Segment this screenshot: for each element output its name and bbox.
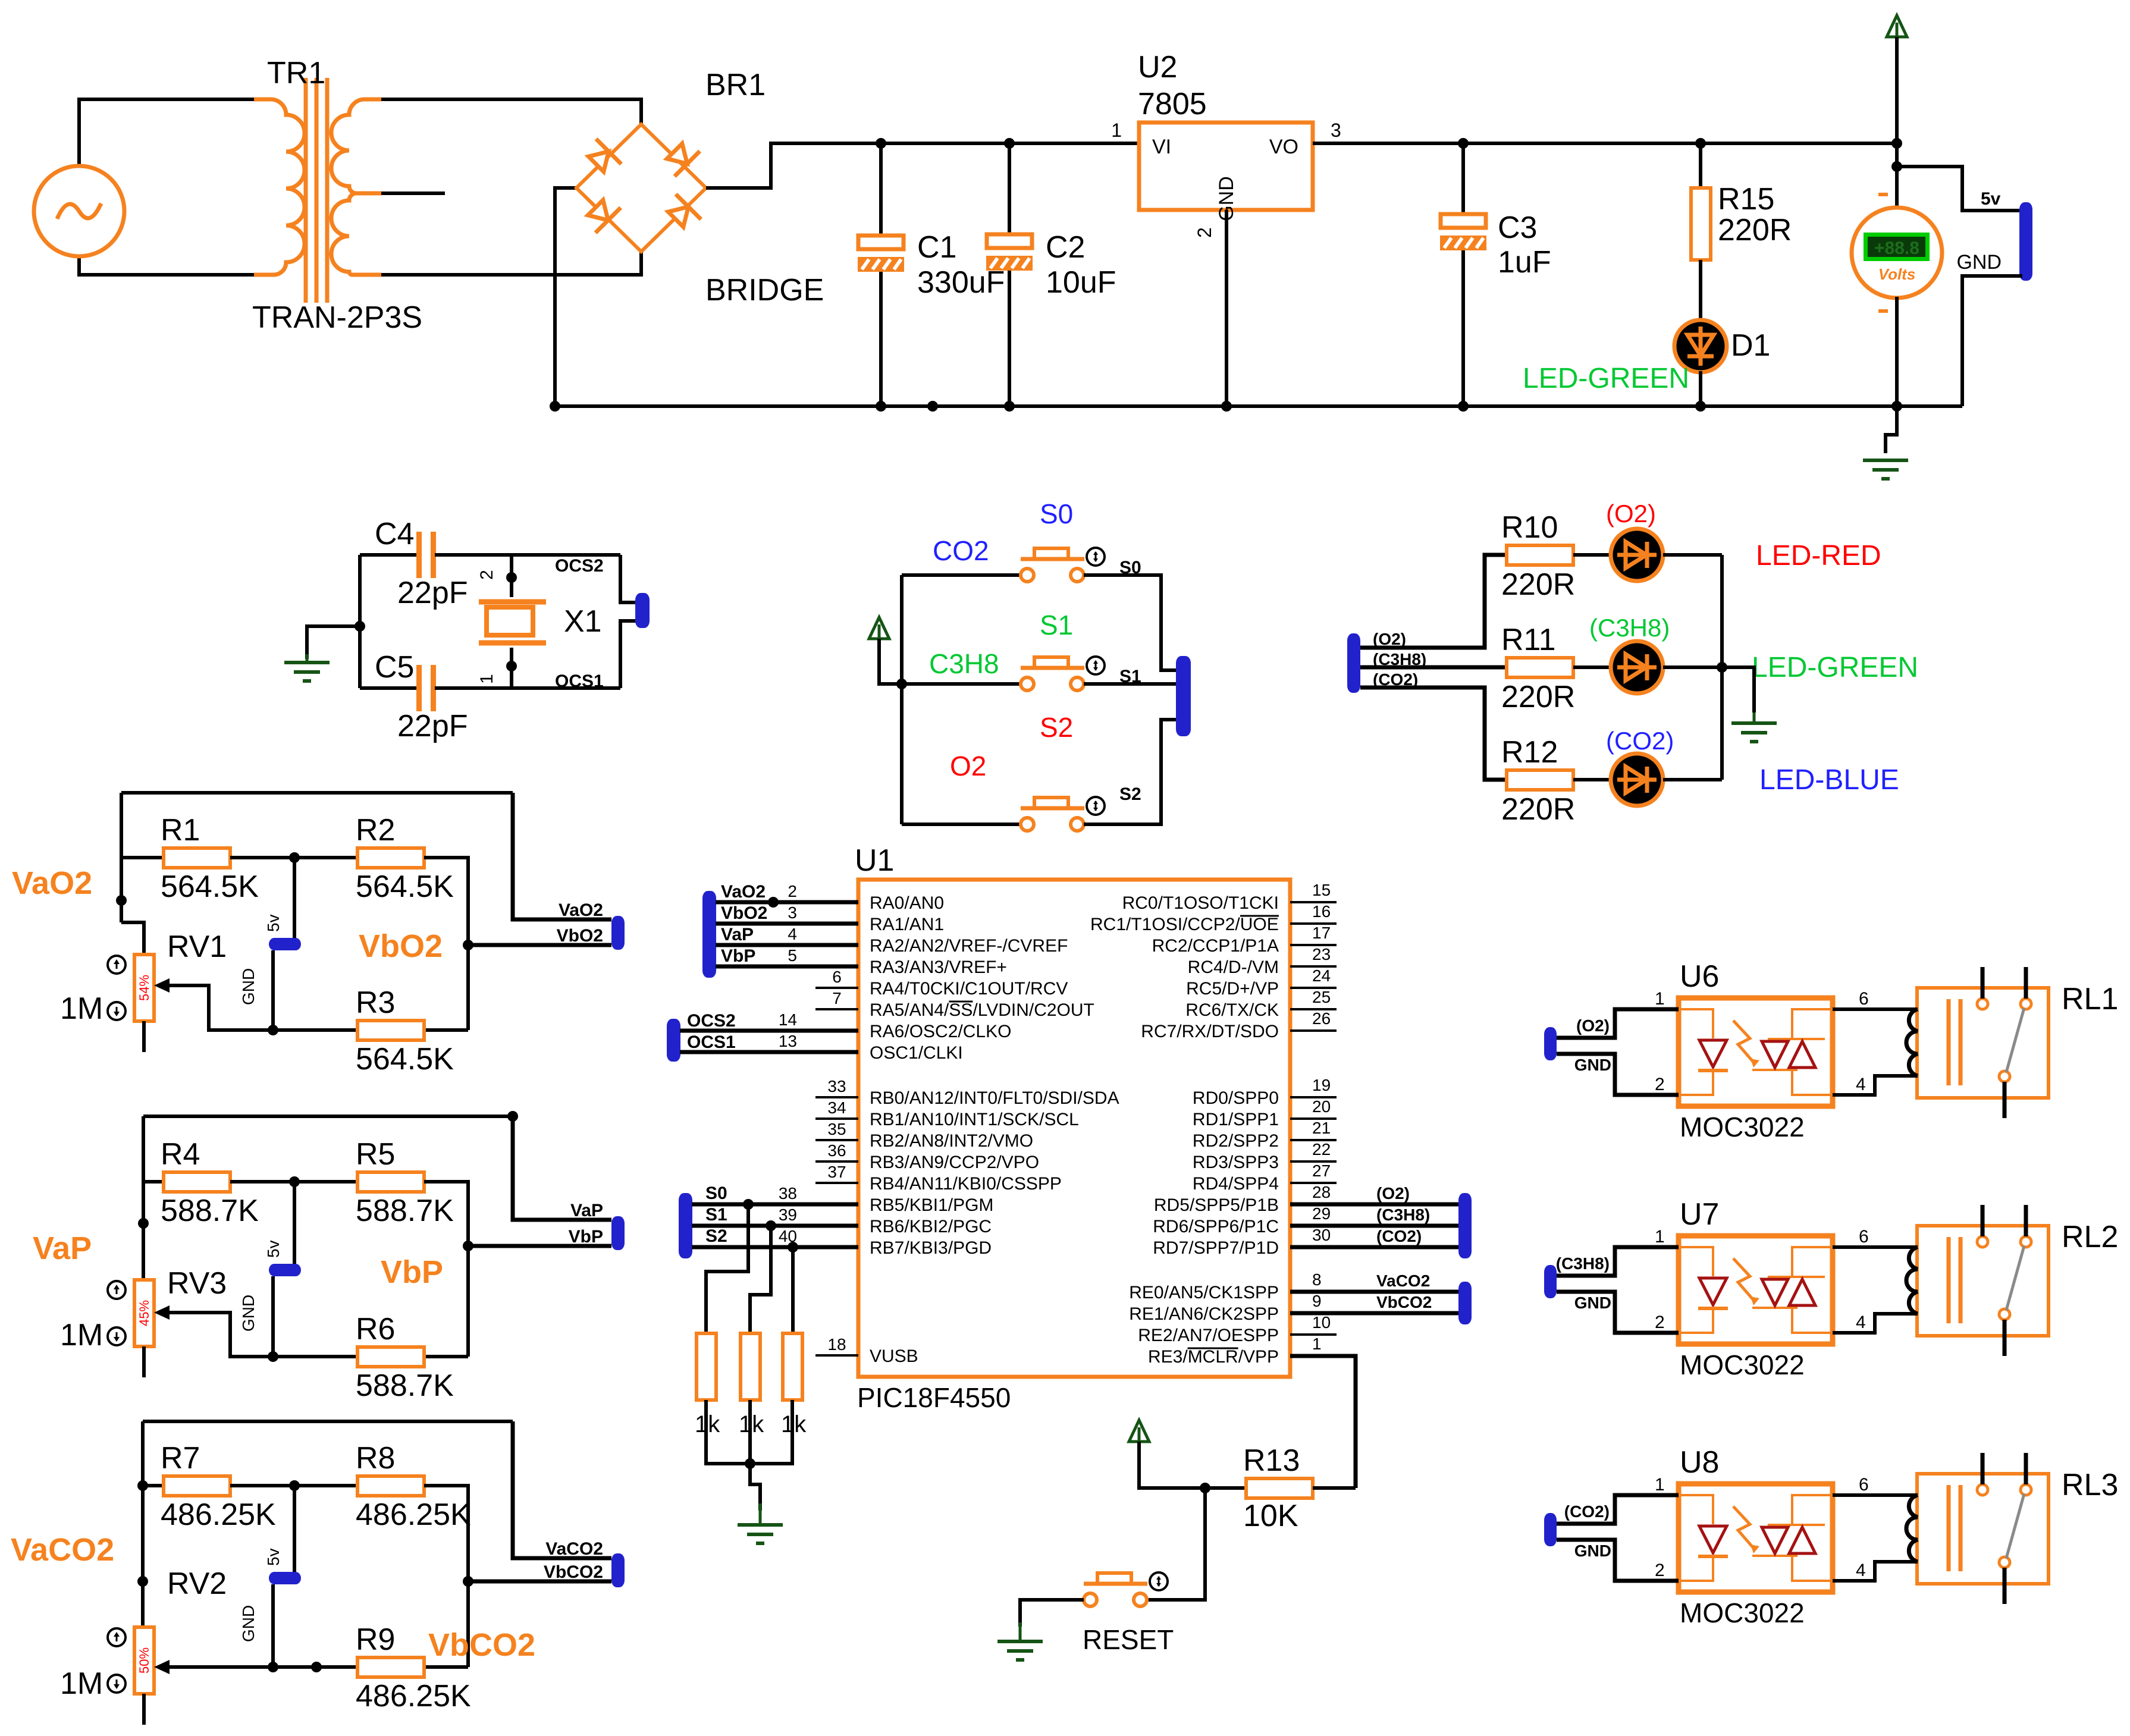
wire S0 right — [1084, 575, 1176, 670]
svg-text:R11: R11 — [1501, 623, 1556, 657]
wire voltmeter bottom to ground rail — [1895, 297, 1899, 406]
wire O2 divider Va stub to terminal — [513, 793, 611, 919]
resistor R11 — [1507, 658, 1573, 677]
svg-text:RL2: RL2 — [2062, 1220, 2118, 1254]
svg-text:RB2/AN8/INT2/VMO: RB2/AN8/INT2/VMO — [870, 1131, 1033, 1151]
transformer TR1 — [254, 99, 305, 275]
svg-text:2: 2 — [477, 570, 497, 580]
svg-text:14: 14 — [779, 1010, 797, 1029]
ground symbol RESET — [1019, 1622, 1022, 1641]
voltmeter Volts — [1852, 208, 1942, 298]
U8 internal triac wires — [1752, 1495, 1833, 1581]
wire transformer center tap stub — [381, 192, 445, 195]
svg-text:+88.8: +88.8 — [1874, 238, 1919, 258]
relay RL3 coil — [1906, 1495, 1918, 1562]
svg-text:9: 9 — [1312, 1292, 1322, 1310]
junction S1 drop — [766, 1220, 776, 1231]
optocoupler U6 box — [1679, 998, 1833, 1106]
svg-text:MOC3022: MOC3022 — [1680, 1597, 1805, 1628]
svg-text:1M: 1M — [60, 1666, 103, 1701]
svg-text:(C3H8): (C3H8) — [1589, 614, 1670, 642]
svg-text:OCS2: OCS2 — [555, 556, 604, 576]
ground symbol crystal — [306, 654, 309, 663]
wire S2 drop to 1k — [791, 1247, 795, 1335]
wire R13 right — [1313, 1486, 1356, 1490]
junction GND P divider — [268, 1351, 278, 1362]
relay RL3 core — [1947, 1485, 1951, 1571]
terminal 5v P divider — [269, 1264, 301, 1276]
terminal LED nets — [1347, 633, 1360, 693]
svg-text:54%: 54% — [137, 975, 152, 1001]
svg-text:16: 16 — [1312, 902, 1331, 921]
resistor R7 — [164, 1476, 230, 1496]
wire C3 bottom — [1461, 250, 1465, 406]
svg-text:6: 6 — [1859, 1475, 1869, 1495]
svg-text:RA6/OSC2/CLKO: RA6/OSC2/CLKO — [870, 1022, 1011, 1041]
wire ground tap — [307, 626, 360, 659]
svg-text:RC5/D+/VP: RC5/D+/VP — [1186, 979, 1279, 999]
svg-text:22pF: 22pF — [397, 576, 468, 610]
wire power arrow to rail — [1895, 37, 1899, 143]
svg-text:10uF: 10uF — [1046, 265, 1116, 300]
wire U2 GND pin to ground rail — [1225, 210, 1228, 406]
svg-text:S2: S2 — [1040, 712, 1073, 743]
junction LED rail — [1717, 662, 1727, 673]
wire crystal loop right bottom — [620, 621, 638, 688]
resistor R1 — [164, 848, 230, 868]
wire S2 left — [902, 823, 1021, 826]
wire bottom row P divider — [230, 1355, 468, 1358]
svg-text:(C3H8): (C3H8) — [1556, 1254, 1610, 1273]
svg-text:(CO2): (CO2) — [1564, 1502, 1610, 1521]
wire (O2) from U1 — [1290, 1203, 1458, 1207]
wire S0 left — [902, 573, 1021, 577]
wire LED rail to ground — [1722, 667, 1754, 712]
wire left rail to R4 — [143, 1180, 164, 1184]
U7 internal triac — [1762, 1279, 1788, 1305]
svg-text:GND: GND — [239, 1295, 258, 1332]
LED green (C3H8) — [1611, 641, 1663, 693]
svg-text:50%: 50% — [137, 1647, 152, 1674]
U7 internal led wire — [1679, 1247, 1713, 1333]
svg-text:29: 29 — [1312, 1204, 1331, 1223]
svg-text:VbP: VbP — [569, 1227, 603, 1247]
potentiometer RV1 — [134, 955, 154, 1021]
wire GND drop P divider — [271, 1276, 275, 1357]
svg-text:RA5/AN4/SS/LVDIN/C2OUT: RA5/AN4/SS/LVDIN/C2OUT — [870, 1000, 1094, 1020]
svg-text:RV1: RV1 — [167, 930, 227, 964]
U6 internal triac — [1762, 1041, 1788, 1068]
relay RL1 moving contact — [1999, 1071, 2010, 1082]
svg-text:10: 10 — [1312, 1313, 1331, 1332]
junction GND CO2 divider — [268, 1662, 278, 1672]
wire pin 18 VUSB stub — [815, 1354, 858, 1357]
terminal VaCO2/VbCO2 — [611, 1553, 625, 1587]
svg-text:RD5/SPP5/P1B: RD5/SPP5/P1B — [1154, 1195, 1279, 1215]
svg-text:RE1/AN6/CK2SPP: RE1/AN6/CK2SPP — [1129, 1304, 1279, 1324]
wire VaO2 to U1 — [716, 900, 858, 905]
relay RL2 coil — [1906, 1247, 1918, 1314]
junction power node — [1891, 138, 1902, 149]
terminal 5v O2 divider — [269, 938, 301, 950]
wire R7 to mid junction — [230, 1484, 357, 1487]
pot down arrow — [108, 1002, 126, 1020]
wire CO2 divider top — [143, 1420, 513, 1423]
svg-text:38: 38 — [779, 1184, 797, 1203]
push button S1 — [1021, 677, 1034, 690]
svg-text:RB5/KBI1/PGM: RB5/KBI1/PGM — [870, 1195, 993, 1215]
wire Vb to terminal O2 divider — [468, 943, 611, 947]
wire crystal pin 2 — [510, 555, 513, 597]
svg-text:BRIDGE: BRIDGE — [705, 273, 824, 307]
svg-text:RD4/SPP4: RD4/SPP4 — [1193, 1174, 1279, 1194]
svg-text:564.5K: 564.5K — [356, 1042, 454, 1076]
capacitor C4 — [416, 532, 422, 578]
wire U7 pin4 to coil — [1833, 1314, 1918, 1333]
U8 internal triac — [1762, 1527, 1788, 1553]
svg-text:VbCO2: VbCO2 — [1376, 1293, 1432, 1311]
svg-text:(C3H8): (C3H8) — [1376, 1206, 1430, 1224]
ground symbol LEDs — [1753, 712, 1756, 723]
wire S2 to U1 — [692, 1245, 858, 1250]
junction R13 left — [1200, 1483, 1210, 1493]
wire AC source to transformer primary top — [79, 99, 254, 167]
svg-text:RD6/SPP6/P1C: RD6/SPP6/P1C — [1153, 1217, 1279, 1236]
wire (CO2) from U1 — [1290, 1245, 1458, 1250]
LED right rail — [1720, 555, 1724, 780]
wire C2 top — [1008, 143, 1011, 237]
svg-text:S2: S2 — [705, 1226, 727, 1246]
svg-text:VaCO2: VaCO2 — [545, 1539, 603, 1559]
svg-text:RA1/AN1: RA1/AN1 — [870, 915, 944, 934]
svg-text:2: 2 — [1655, 1313, 1665, 1332]
optocoupler U7 box — [1679, 1236, 1833, 1344]
svg-text:RE0/AN5/CK1SPP: RE0/AN5/CK1SPP — [1129, 1283, 1279, 1302]
svg-text:RA4/T0CKI/C1OUT/RCV: RA4/T0CKI/C1OUT/RCV — [870, 979, 1068, 999]
svg-text:6: 6 — [1859, 989, 1869, 1009]
terminal S0 S1 S2 U1 — [679, 1193, 692, 1258]
relay RL2 top pin A — [1981, 1205, 1985, 1236]
svg-text:R6: R6 — [356, 1312, 395, 1346]
svg-text:RB4/AN11/KBI0/CSSPP: RB4/AN11/KBI0/CSSPP — [870, 1174, 1062, 1194]
wire VbP to U1 — [716, 965, 858, 969]
resistor R13 — [1246, 1478, 1313, 1498]
resistor R9 — [357, 1657, 424, 1677]
svg-text:19: 19 — [1312, 1076, 1331, 1094]
wire R4 to mid junction — [230, 1180, 357, 1184]
svg-text:6: 6 — [1859, 1227, 1869, 1247]
terminal U8 input — [1544, 1513, 1557, 1546]
junction 5v O2 divider — [289, 852, 300, 863]
svg-text:22: 22 — [1312, 1140, 1331, 1159]
svg-text:VbP: VbP — [381, 1254, 443, 1290]
svg-text:RD1/SPP1: RD1/SPP1 — [1193, 1110, 1279, 1129]
svg-text:RE3/MCLR/VPP: RE3/MCLR/VPP — [1148, 1347, 1279, 1367]
bridge diode top-left — [584, 139, 622, 177]
svg-text:OCS1: OCS1 — [687, 1032, 736, 1052]
svg-text:2: 2 — [788, 882, 797, 900]
junction pin2 wire — [768, 897, 779, 908]
svg-text:RA3/AN3/VREF+: RA3/AN3/VREF+ — [870, 958, 1007, 977]
wire O2 divider top — [121, 791, 513, 795]
power arrow buttons — [869, 617, 889, 639]
svg-text:5v: 5v — [264, 1240, 283, 1258]
relay RL3 NO contact — [2021, 1484, 2031, 1495]
svg-text:1: 1 — [477, 674, 497, 684]
svg-text:26: 26 — [1312, 1009, 1331, 1028]
wire GND drop CO2 divider — [271, 1584, 275, 1667]
svg-text:R7: R7 — [161, 1441, 200, 1476]
junction at C1 — [876, 138, 886, 149]
svg-text:7805: 7805 — [1138, 87, 1207, 121]
svg-text:RL3: RL3 — [2062, 1468, 2118, 1502]
U6 internal LED — [1699, 1040, 1727, 1067]
svg-text:35: 35 — [827, 1120, 846, 1138]
wire CO2 divider Va stub to terminal — [513, 1421, 611, 1558]
svg-text:VbCO2: VbCO2 — [544, 1562, 603, 1582]
wire (C3H8) from U1 — [1290, 1224, 1458, 1228]
svg-text:8: 8 — [1312, 1270, 1322, 1289]
terminal S0 S1 S2 buttons — [1176, 656, 1191, 736]
optocoupler U8 box — [1679, 1484, 1833, 1592]
wire CO2 divider left rail — [141, 1421, 145, 1627]
svg-text:R2: R2 — [356, 813, 395, 847]
svg-text:RESET: RESET — [1083, 1624, 1174, 1655]
junction 5v P divider — [289, 1176, 300, 1187]
U8 internal lightning — [1733, 1506, 1753, 1548]
ground rail — [555, 404, 1962, 408]
wire O2 divider left rail — [120, 793, 123, 922]
wire 5v drop P divider — [293, 1182, 296, 1265]
wire D1 to ground rail — [1699, 371, 1702, 406]
wire crystal loop left — [358, 555, 362, 688]
svg-text:S1: S1 — [705, 1205, 727, 1225]
svg-text:X1: X1 — [564, 604, 602, 639]
svg-text:C4: C4 — [375, 517, 414, 551]
svg-text:C5: C5 — [375, 650, 414, 685]
U7 internal LED — [1699, 1278, 1727, 1305]
svg-text:220R: 220R — [1501, 792, 1575, 827]
wire U8 pin4 to coil — [1833, 1562, 1918, 1581]
ground symbol 1k — [759, 1503, 762, 1525]
junction U2 GND at rail — [1221, 401, 1232, 412]
AC source V1 — [34, 166, 124, 256]
wire C1 bottom — [879, 269, 883, 406]
junction at R15 — [1695, 138, 1706, 149]
svg-text:BR1: BR1 — [705, 68, 766, 102]
potentiometer RV3 — [134, 1280, 154, 1346]
wire S2 right — [1084, 720, 1176, 824]
wiper wire RV1 — [159, 985, 273, 1030]
capacitor C1 — [858, 236, 904, 249]
svg-text:CO2: CO2 — [933, 535, 989, 566]
svg-text:VaO2: VaO2 — [559, 900, 603, 920]
terminal U6 input — [1544, 1027, 1557, 1060]
relay RL1 box — [1917, 988, 2049, 1098]
relay RL1 common contact — [1977, 999, 1988, 1009]
svg-text:RD0/SPP0: RD0/SPP0 — [1193, 1088, 1279, 1108]
pot down arrow — [108, 1327, 126, 1345]
svg-text:RA0/AN0: RA0/AN0 — [870, 893, 944, 913]
wire LED red to right rail — [1663, 553, 1722, 557]
svg-text:S2: S2 — [1119, 784, 1141, 804]
svg-text:RV2: RV2 — [167, 1567, 227, 1601]
wire VaP to U1 — [716, 943, 858, 947]
relay RL1 bottom pin — [2003, 1082, 2007, 1118]
svg-text:39: 39 — [779, 1206, 797, 1224]
svg-text:5v: 5v — [264, 1548, 283, 1566]
resistor 1k first — [697, 1333, 716, 1400]
svg-text:37: 37 — [827, 1163, 846, 1181]
svg-text:13: 13 — [779, 1032, 797, 1050]
IC U1 PIC18F4550 box — [858, 880, 1290, 1377]
svg-text:R15: R15 — [1718, 182, 1774, 216]
relay RL3 lever — [2006, 1494, 2024, 1558]
svg-text:18: 18 — [827, 1335, 846, 1354]
wire R15 top — [1699, 143, 1702, 189]
wire pot bottom stub — [142, 1021, 146, 1052]
svg-text:1: 1 — [1111, 120, 1122, 141]
svg-text:RB0/AN12/INT0/FLT0/SDI/SDA: RB0/AN12/INT0/FLT0/SDI/SDA — [870, 1088, 1119, 1108]
svg-text:588.7K: 588.7K — [356, 1368, 454, 1403]
capacitor C5 — [416, 665, 422, 711]
svg-text:486.25K: 486.25K — [356, 1498, 471, 1532]
wire OCS1 to U1 — [680, 1050, 858, 1054]
svg-text:VbP: VbP — [721, 946, 755, 966]
relay RL1 NO contact — [2021, 999, 2031, 1009]
svg-text:GND: GND — [239, 968, 258, 1005]
resistor 1k second — [741, 1333, 760, 1400]
push button S0 — [1021, 569, 1034, 582]
regulator U2 7805 box — [1139, 123, 1313, 210]
LED blue (CO2) — [1611, 754, 1663, 806]
svg-text:C3H8: C3H8 — [929, 648, 999, 679]
svg-text:17: 17 — [1312, 924, 1331, 942]
wire U8 pin2 — [1557, 1540, 1679, 1581]
wire P divider Va stub to terminal — [513, 1116, 611, 1220]
wire Vb to terminal CO2 divider — [468, 1580, 611, 1584]
terminal VaO2 VbO2 VaP VbP — [702, 891, 716, 978]
svg-text:1uF: 1uF — [1498, 245, 1551, 280]
wire (C3H8) to R11 — [1360, 665, 1507, 670]
svg-text:21: 21 — [1312, 1119, 1331, 1137]
power arrow reset — [1129, 1420, 1149, 1442]
svg-text:1M: 1M — [60, 991, 103, 1026]
wire crystal loop bottom — [360, 686, 416, 690]
svg-text:RD3/SPP3: RD3/SPP3 — [1193, 1153, 1279, 1172]
relay RL2 top pin B — [2024, 1205, 2028, 1236]
svg-text:VbO2: VbO2 — [721, 903, 767, 923]
svg-text:RC2/CCP1/P1A: RC2/CCP1/P1A — [1152, 936, 1279, 956]
svg-text:4: 4 — [1856, 1561, 1866, 1580]
svg-text:564.5K: 564.5K — [161, 869, 259, 904]
relay RL3 moving contact — [1999, 1557, 2010, 1568]
junction S2 drop — [788, 1242, 798, 1252]
svg-text:TR1: TR1 — [267, 56, 325, 90]
push button S2 — [1021, 818, 1034, 831]
wire power arrow to R13 — [1139, 1442, 1246, 1488]
wire left rail to R1 — [121, 856, 164, 859]
svg-text:4: 4 — [1856, 1313, 1866, 1332]
junction top right P divider — [507, 1111, 518, 1122]
wire VaCO2 from U1 — [1290, 1290, 1458, 1294]
svg-text:U6: U6 — [1680, 959, 1719, 994]
svg-text:MOC3022: MOC3022 — [1680, 1349, 1805, 1380]
wire S1 right — [1084, 682, 1176, 686]
svg-text:GND: GND — [1574, 1294, 1611, 1312]
svg-text:(CO2): (CO2) — [1376, 1227, 1422, 1245]
svg-text:486.25K: 486.25K — [356, 1679, 471, 1713]
U7 internal triac wires — [1752, 1247, 1833, 1333]
relay RL2 bottom pin — [2003, 1320, 2007, 1356]
svg-text:OCS1: OCS1 — [555, 671, 604, 691]
relay RL3 top pin B — [2024, 1453, 2028, 1484]
svg-text:15: 15 — [1312, 881, 1331, 899]
wire U7 pin2 — [1557, 1292, 1679, 1333]
wire 5v drop CO2 divider — [293, 1486, 296, 1573]
wire GND terminal to rail — [1962, 276, 2022, 406]
junction 1k common — [745, 1458, 755, 1469]
bridge diode bottom-left — [583, 195, 621, 233]
relay RL2 core — [1947, 1237, 1951, 1323]
svg-text:RD2/SPP2: RD2/SPP2 — [1193, 1131, 1279, 1151]
wire U6 pin6 to coil — [1833, 1007, 1918, 1011]
bridge diode top-right — [662, 139, 700, 177]
svg-text:2: 2 — [1655, 1075, 1665, 1094]
wire R1 to mid junction — [230, 856, 357, 859]
svg-text:R1: R1 — [161, 813, 200, 847]
wire crystal loop right top — [620, 555, 638, 602]
svg-text:34: 34 — [827, 1098, 846, 1117]
relay RL1 top pin A — [1981, 967, 1985, 999]
junction R7 left rail — [137, 1480, 148, 1491]
relay RL2 NO contact — [2021, 1236, 2031, 1247]
pot up arrow — [108, 1281, 126, 1299]
wire pot bottom stub — [142, 1346, 146, 1377]
svg-text:S0: S0 — [1040, 498, 1073, 529]
svg-text:LED-GREEN: LED-GREEN — [1523, 363, 1689, 394]
wire (O2) to R10 — [1360, 555, 1507, 648]
wire AC source to transformer primary bottom — [79, 256, 254, 275]
svg-text:C3: C3 — [1498, 211, 1537, 245]
relay RL1 top pin B — [2024, 967, 2028, 999]
svg-text:C1: C1 — [917, 230, 956, 265]
wire R8 to right rail — [424, 1486, 468, 1667]
svg-text:VbCO2: VbCO2 — [428, 1627, 535, 1663]
wire crystal pin 1 — [510, 648, 513, 688]
wire Vb to terminal P divider — [468, 1244, 611, 1248]
svg-text:U2: U2 — [1138, 50, 1177, 84]
junction CO2 divider Vb — [463, 1576, 473, 1587]
junction at C2 — [1004, 138, 1015, 149]
ground symbol top right — [1863, 459, 1908, 462]
junction C1 at ground rail — [876, 401, 886, 412]
junction crystal pin 2 — [506, 572, 517, 583]
svg-text:R12: R12 — [1501, 735, 1558, 770]
wire bridge left vertex to ground rail — [555, 188, 576, 406]
svg-text:MOC3022: MOC3022 — [1680, 1112, 1805, 1142]
svg-text:RV3: RV3 — [167, 1266, 227, 1301]
svg-text:R10: R10 — [1501, 510, 1558, 545]
wire P divider left rail — [142, 1116, 145, 1280]
svg-text:TRAN-2P3S: TRAN-2P3S — [252, 300, 422, 335]
wire crystal loop top — [360, 553, 416, 557]
junction CO2 divider left rail — [137, 1576, 148, 1587]
junction D1 at rail — [1695, 401, 1706, 412]
svg-text:VbO2: VbO2 — [557, 926, 603, 946]
wire VbO2 to U1 — [716, 922, 858, 926]
svg-text:RD7/SPP7/P1D: RD7/SPP7/P1D — [1153, 1238, 1279, 1258]
